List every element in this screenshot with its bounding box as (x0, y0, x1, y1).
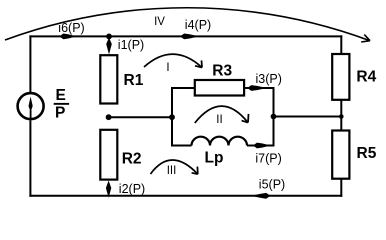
svg-text:E: E (56, 87, 66, 104)
svg-text:R4: R4 (356, 68, 376, 85)
wire right rail bottom (340, 178, 342, 197)
resistor R3 (195, 80, 244, 96)
svg-text:II: II (216, 114, 222, 126)
source E/P (18, 93, 44, 119)
node right rail (339, 114, 344, 119)
svg-text:R5: R5 (357, 145, 377, 162)
svg-text:i2(P): i2(P) (119, 182, 145, 196)
wire right rail middle (340, 100, 342, 132)
wire right rail top (340, 35, 342, 54)
current arrow i4 (180, 34, 199, 40)
wire parallel right vertical (273, 87, 275, 147)
resistor R5 (332, 131, 349, 179)
svg-text:R3: R3 (212, 63, 232, 80)
wire R3 branch right (244, 87, 274, 89)
inductor Lp coil (192, 137, 248, 146)
loop III arrow (151, 160, 198, 174)
current arrow i1 (106, 38, 112, 55)
svg-text:i5(P): i5(P) (259, 178, 285, 192)
node between R1 and R2 (106, 114, 112, 120)
current arrow i3 (247, 85, 267, 91)
svg-text:i7(P): i7(P) (255, 152, 281, 166)
loop I arrow (144, 54, 202, 67)
resistor R2 (100, 130, 117, 180)
svg-text:R2: R2 (122, 151, 142, 168)
resistor R4 (332, 54, 349, 100)
wire Lp branch left (171, 145, 192, 147)
svg-text:III: III (167, 165, 177, 177)
current arrow i7 (253, 143, 271, 149)
node parallel right (271, 114, 277, 120)
wire bottom (29, 195, 342, 197)
wire middle left (109, 116, 172, 118)
svg-text:Lp: Lp (205, 150, 224, 167)
resistor R1 (100, 55, 117, 103)
wire middle right (274, 116, 342, 118)
svg-text:R1: R1 (124, 72, 144, 89)
current arrow i6 (60, 34, 77, 40)
node parallel left (169, 114, 175, 120)
svg-text:i3(P): i3(P) (256, 72, 282, 86)
wire parallel left vertical (171, 88, 173, 147)
wire left rail upper (29, 35, 31, 92)
current arrow i2 (106, 181, 111, 198)
svg-text:IV: IV (154, 16, 165, 28)
svg-text:P: P (55, 104, 65, 121)
current arrow i5 (251, 193, 271, 199)
loop II arrow (195, 106, 249, 123)
svg-text:i4(P): i4(P) (185, 18, 211, 32)
source label E/P (54, 87, 69, 122)
svg-text:i6(P): i6(P) (58, 21, 84, 35)
node on top wire (106, 34, 112, 40)
wire Lp branch right (247, 145, 275, 147)
loop IV big arc (5, 8, 370, 42)
wire top (29, 35, 342, 37)
svg-text:i1(P): i1(P) (118, 38, 144, 52)
wire R3 branch left (171, 87, 195, 89)
wire left rail lower (29, 120, 31, 197)
svg-text:I: I (166, 62, 169, 74)
